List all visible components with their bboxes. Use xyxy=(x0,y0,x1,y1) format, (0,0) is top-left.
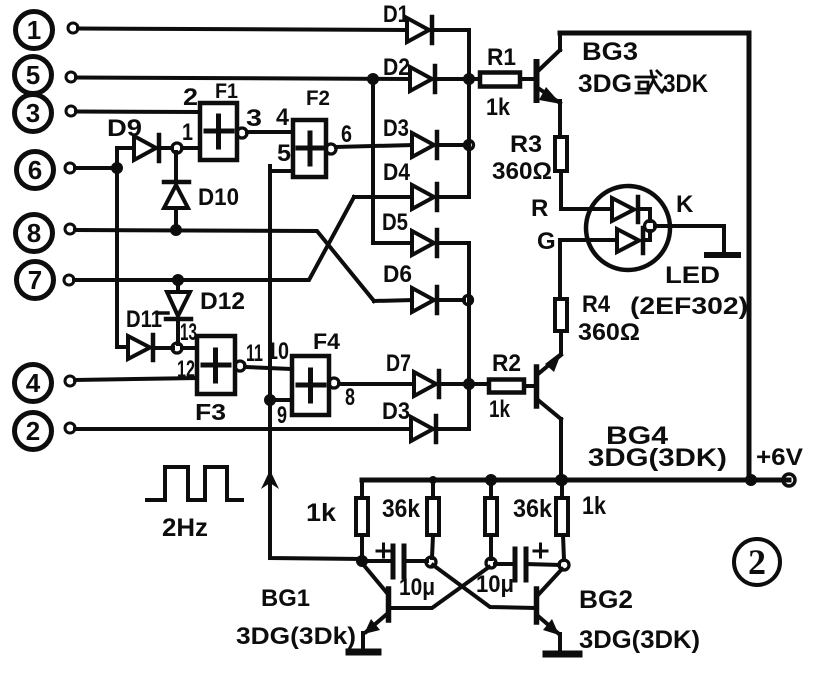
svg-text:D3: D3 xyxy=(382,398,410,425)
resistor R1 xyxy=(480,44,534,121)
resistor R3 xyxy=(492,131,567,209)
gate F4 xyxy=(267,329,355,429)
svg-text:BG1: BG1 xyxy=(261,585,310,612)
svg-text:D9: D9 xyxy=(107,115,142,142)
resistor 1k right xyxy=(556,474,606,560)
svg-text:8: 8 xyxy=(345,384,355,411)
wire D7 cathode to R2 xyxy=(439,382,489,386)
svg-text:360Ω: 360Ω xyxy=(578,319,640,346)
LED (dual) circle xyxy=(586,186,670,270)
svg-text:3DG(3DK): 3DG(3DK) xyxy=(579,626,700,654)
wire F2 pin5 to clock line xyxy=(270,166,293,171)
wire K lead to ground xyxy=(655,226,724,253)
svg-text:2: 2 xyxy=(748,542,766,582)
wire terminal1 to D1 xyxy=(78,29,407,31)
svg-text:6: 6 xyxy=(341,121,352,148)
wire F1 pin3 to F2 pin4 xyxy=(247,130,293,134)
svg-text:3DG(3Dk): 3DG(3Dk) xyxy=(236,623,356,650)
diode D1 xyxy=(383,1,432,43)
LED red diode xyxy=(612,197,650,222)
wire terminal2 to D8 anode xyxy=(75,427,411,431)
svg-text:1k: 1k xyxy=(582,492,606,520)
gate F1 xyxy=(182,80,262,160)
label BG3 xyxy=(582,38,638,66)
terminal 7 xyxy=(17,262,75,299)
LED green diode xyxy=(617,228,650,253)
transistor BG1 (mirrored) xyxy=(362,563,389,650)
svg-text:13: 13 xyxy=(180,319,197,346)
wire G lead xyxy=(560,238,617,242)
diode D11 xyxy=(126,306,173,360)
svg-text:G: G xyxy=(537,228,556,255)
wire cathode bus D1-D4 xyxy=(432,30,469,197)
gate F2 xyxy=(276,87,352,177)
terminal 3 xyxy=(15,95,77,132)
junction dot terminal6 bus xyxy=(111,162,123,174)
svg-text:R1: R1 xyxy=(487,44,516,71)
svg-text:9: 9 xyxy=(277,402,287,429)
capacitor C1 10u left xyxy=(366,544,435,601)
terminal 8 xyxy=(16,215,76,252)
junction dot D10 to terminal8 line xyxy=(170,224,182,236)
wire anode bus D2-D5 xyxy=(373,79,412,243)
wire D4 anode lead xyxy=(354,195,412,199)
capacitor C2 10u right xyxy=(476,544,559,598)
svg-text:+6V: +6V xyxy=(756,444,803,471)
transistor BG4 xyxy=(537,351,563,480)
label 2EF302 xyxy=(630,293,748,320)
diode D8 (printed D3) xyxy=(382,398,436,442)
terminal 4 xyxy=(15,365,76,402)
diode D2 xyxy=(383,54,435,92)
svg-text:F1: F1 xyxy=(215,80,238,103)
svg-text:3: 3 xyxy=(26,98,40,128)
svg-text:D7: D7 xyxy=(386,350,411,377)
svg-text:4: 4 xyxy=(26,368,41,398)
svg-text:1: 1 xyxy=(27,15,41,45)
wire top rail xyxy=(560,31,749,36)
svg-text:1k: 1k xyxy=(306,499,336,527)
label BG4 xyxy=(606,422,668,450)
wire terminal5 to D2 anode xyxy=(76,78,410,80)
svg-text:5: 5 xyxy=(26,60,40,90)
wire F4 pin8 to D7 xyxy=(339,382,414,386)
label LED xyxy=(665,262,720,289)
resistor R2 xyxy=(489,350,534,423)
wire +6V rail xyxy=(362,478,789,483)
svg-text:2Hz: 2Hz xyxy=(162,514,208,542)
resistor 1k left xyxy=(306,480,368,561)
svg-text:2: 2 xyxy=(26,416,40,446)
node 1 junction circle xyxy=(172,143,182,153)
svg-text:D2: D2 xyxy=(383,54,410,81)
resistor 36k right xyxy=(485,474,552,559)
wire D6 cathode lead xyxy=(437,298,464,302)
junction circle cap1/36k xyxy=(426,557,436,567)
wire cross coupling cap2 to BG1 base xyxy=(391,567,489,608)
label G xyxy=(537,228,556,255)
svg-text:R2: R2 xyxy=(492,350,521,377)
svg-text:F3: F3 xyxy=(195,399,226,425)
svg-text:360Ω: 360Ω xyxy=(492,158,552,185)
diode D6 xyxy=(383,261,437,313)
gate F3 xyxy=(177,319,263,425)
junction dot BG1 collector xyxy=(356,555,368,567)
svg-text:BG3: BG3 xyxy=(582,38,638,66)
wire D2 cathode to R1 xyxy=(435,77,480,81)
LED common cathode circle xyxy=(645,221,656,232)
junction circle D6 cathode xyxy=(464,296,473,305)
svg-text:1: 1 xyxy=(182,119,193,146)
diode D12 xyxy=(166,280,245,344)
wire R lead xyxy=(561,207,612,211)
svg-text:D1: D1 xyxy=(383,1,409,28)
svg-text:F4: F4 xyxy=(313,329,341,354)
wire cathode bus D5-D8 xyxy=(436,243,469,429)
label BG1 type xyxy=(236,623,356,650)
svg-text:LED: LED xyxy=(665,262,720,289)
label 3DG or 3DK xyxy=(578,70,708,98)
svg-text:36k: 36k xyxy=(382,495,420,523)
svg-text:8: 8 xyxy=(27,218,41,248)
wire vertical bus left (terminal6/D9/D11) xyxy=(117,148,128,347)
svg-text:3DG(3DK): 3DG(3DK) xyxy=(588,444,727,472)
square wave 2Hz symbol xyxy=(147,467,242,542)
label BG1 xyxy=(261,585,310,612)
svg-text:D10: D10 xyxy=(198,184,239,211)
wire node13 to F3 pin13 xyxy=(182,346,197,350)
wire clock feed vertical with corner to BG1 collector xyxy=(270,166,362,559)
svg-text:1k: 1k xyxy=(486,94,511,121)
wire D3 cathode lead xyxy=(437,143,465,147)
wire terminal7 to D4 (horizontal + diagonal) xyxy=(74,197,354,280)
svg-text:R4: R4 xyxy=(582,291,611,318)
wire terminal4 to F3 pin12 xyxy=(75,378,197,380)
svg-text:K: K xyxy=(676,191,694,218)
wire F2 pin6 to D3 xyxy=(336,145,412,147)
svg-text:3DK: 3DK xyxy=(663,70,708,98)
resistor R4 xyxy=(555,240,640,352)
svg-text:3DG: 3DG xyxy=(578,70,632,98)
transistor BG3 xyxy=(537,33,562,137)
terminal 2 xyxy=(15,413,76,450)
wire clock junction to F4 pin9 xyxy=(270,398,292,402)
svg-text:10μ: 10μ xyxy=(476,571,514,598)
label BG2 type xyxy=(579,626,700,654)
svg-text:D5: D5 xyxy=(382,209,408,236)
wire terminal8 to D6 (horizontal + diagonal) xyxy=(75,230,374,301)
svg-text:5: 5 xyxy=(277,140,291,167)
junction dot BG4 rail xyxy=(555,474,567,486)
junction dot D2 cathode R1 xyxy=(463,73,475,85)
junction circle D3 cathode xyxy=(465,141,474,150)
arrow on clock feed xyxy=(261,470,279,489)
svg-text:(2EF302): (2EF302) xyxy=(630,293,748,320)
svg-text:7: 7 xyxy=(28,265,42,295)
ground LED K xyxy=(707,252,738,258)
svg-text:D6: D6 xyxy=(383,261,412,288)
label K xyxy=(676,191,694,218)
junction dot D12 to terminal7 line xyxy=(172,274,184,286)
label BG2 xyxy=(579,586,633,614)
wire node1 to F1 pin1 xyxy=(182,146,200,150)
diode D4 xyxy=(383,159,437,210)
ground BG1 xyxy=(349,649,378,656)
diode D9 xyxy=(107,115,172,161)
svg-text:1k: 1k xyxy=(489,396,511,423)
wire F3 pin11 to F4 pin10 xyxy=(245,367,292,369)
wire D6 anode lead xyxy=(374,300,412,301)
svg-text:6: 6 xyxy=(28,155,42,185)
junction circle cap2/36k xyxy=(486,558,496,568)
ground BG2 xyxy=(546,651,579,658)
junction dot clock to F4 pin9 xyxy=(264,394,276,406)
svg-text:2: 2 xyxy=(183,84,198,111)
diode D5 xyxy=(382,209,437,256)
transistor BG2 xyxy=(537,569,563,652)
resistor 36k left xyxy=(382,476,439,558)
junction circle cap2/1k/BG2 collector xyxy=(559,560,569,570)
diode D10 xyxy=(164,152,239,230)
svg-text:D4: D4 xyxy=(383,159,411,186)
svg-text:R3: R3 xyxy=(510,131,542,158)
junction dot right rail xyxy=(745,474,757,486)
wire right rail xyxy=(747,33,752,480)
svg-text:D11: D11 xyxy=(126,306,162,333)
terminal 5 xyxy=(15,57,77,94)
terminal 1 xyxy=(16,12,79,49)
svg-text:D3: D3 xyxy=(383,115,409,142)
diode D7 xyxy=(386,350,439,397)
svg-text:36k: 36k xyxy=(513,495,552,523)
svg-text:12: 12 xyxy=(177,356,195,383)
svg-text:3: 3 xyxy=(246,105,262,132)
svg-text:F2: F2 xyxy=(306,87,330,110)
wire cross coupling cap1 to BG2 base xyxy=(433,565,534,608)
junction dot D2 anode xyxy=(367,73,379,85)
label BG4 type xyxy=(588,444,727,472)
svg-text:10μ: 10μ xyxy=(399,574,435,601)
diode D3 xyxy=(383,115,437,158)
junction dot D7 cathode R2 xyxy=(463,378,475,390)
terminal 6 xyxy=(17,152,76,189)
terminal +6V xyxy=(756,444,803,486)
svg-text:D12: D12 xyxy=(200,288,245,315)
svg-text:BG2: BG2 xyxy=(579,586,633,614)
figure number 2 xyxy=(734,539,780,585)
svg-text:R: R xyxy=(531,195,548,222)
node 13 junction circle xyxy=(172,343,182,353)
label R xyxy=(531,195,548,222)
svg-text:11: 11 xyxy=(246,340,263,367)
wire terminal6 to vertical bus xyxy=(75,166,117,170)
svg-text:4: 4 xyxy=(276,104,290,131)
wire terminal3 to F1 pin2 xyxy=(76,110,200,115)
